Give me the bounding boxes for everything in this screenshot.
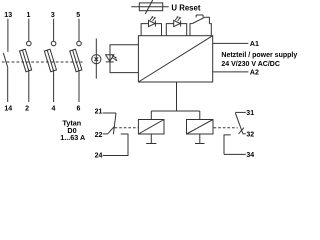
- ground K2: [195, 134, 205, 144]
- indicator lamp: [92, 55, 101, 64]
- svg-text:31: 31: [246, 110, 254, 117]
- svg-text:13: 13: [4, 12, 12, 19]
- svg-text:24: 24: [95, 152, 103, 159]
- wire terminal 31: [235, 111, 246, 113]
- svg-text:U Reset: U Reset: [171, 3, 200, 12]
- wire terminal 22: [103, 133, 108, 135]
- pushbutton S1: [192, 15, 209, 24]
- svg-text:3: 3: [51, 12, 55, 19]
- indicator box 2: [166, 24, 186, 36]
- svg-text:32: 32: [246, 132, 254, 139]
- indicator lamp wire: [95, 39, 97, 79]
- fuse F2 body: [44, 49, 56, 71]
- LED D3: [106, 55, 117, 62]
- contact K2 NC seat: [239, 128, 244, 134]
- wire lead 6: [78, 71, 80, 102]
- svg-text:Netzteil / power supply: Netzteil / power supply: [221, 52, 297, 59]
- svg-text:1: 1: [26, 12, 30, 19]
- wire terminal 34: [224, 135, 246, 155]
- auxiliary contact 13-14 blade: [3, 53, 7, 68]
- power supply box U1: [138, 36, 212, 82]
- LED module box: [110, 45, 138, 73]
- mechanical linkage dashed line: [2, 61, 83, 63]
- indicator box 1: [141, 24, 161, 36]
- wire terminal 21: [103, 112, 116, 114]
- svg-text:34: 34: [246, 152, 254, 159]
- fixed contact terminal F1: [27, 41, 32, 46]
- wire A1: [213, 42, 249, 44]
- wire lead 4: [53, 71, 55, 102]
- svg-text:1...63 A: 1...63 A: [60, 133, 85, 142]
- wire lead 14: [7, 67, 9, 102]
- fuse F1 body: [20, 49, 32, 71]
- wire lead 3: [53, 19, 55, 42]
- svg-text:A1: A1: [250, 41, 259, 48]
- fixed contact terminal F3: [77, 41, 82, 46]
- reset button box 3: [190, 24, 211, 36]
- svg-text:22: 22: [95, 132, 103, 139]
- svg-text:4: 4: [52, 106, 56, 113]
- svg-text:5: 5: [76, 12, 80, 19]
- relay coil K1: [138, 120, 164, 135]
- svg-text:A2: A2: [250, 70, 259, 77]
- fuse legend (U Reset): [131, 0, 168, 14]
- wire to coil K2: [199, 111, 201, 120]
- svg-text:2: 2: [25, 106, 29, 113]
- wire lead 13: [7, 19, 9, 52]
- svg-text:6: 6: [77, 106, 81, 113]
- LED D2: [174, 16, 181, 26]
- svg-text:14: 14: [4, 106, 12, 113]
- wire A2: [213, 71, 249, 73]
- wire terminal 24: [103, 134, 128, 156]
- wire lead 5: [78, 19, 80, 42]
- wire to coil K1: [150, 111, 152, 120]
- fuse F3 body: [70, 49, 82, 71]
- svg-text:24 V/230 V AC/DC: 24 V/230 V AC/DC: [221, 61, 280, 68]
- mechanical link K1 dashed: [115, 127, 139, 129]
- ground K1: [146, 134, 156, 144]
- coil bus wire: [151, 110, 200, 112]
- contact K1 blade: [113, 113, 116, 134]
- contact K2 blade: [235, 113, 243, 134]
- wire terminal 32: [243, 133, 246, 135]
- mechanical link K2 dashed: [214, 127, 238, 129]
- contact K1 NC seat: [108, 126, 114, 133]
- wire lead 2: [28, 71, 30, 102]
- LED D1: [149, 16, 156, 26]
- wire lead 1: [28, 19, 30, 42]
- wire box to coil bus: [176, 82, 178, 111]
- relay coil K2: [187, 120, 214, 135]
- fixed contact terminal F2: [51, 41, 56, 46]
- svg-text:21: 21: [95, 109, 103, 116]
